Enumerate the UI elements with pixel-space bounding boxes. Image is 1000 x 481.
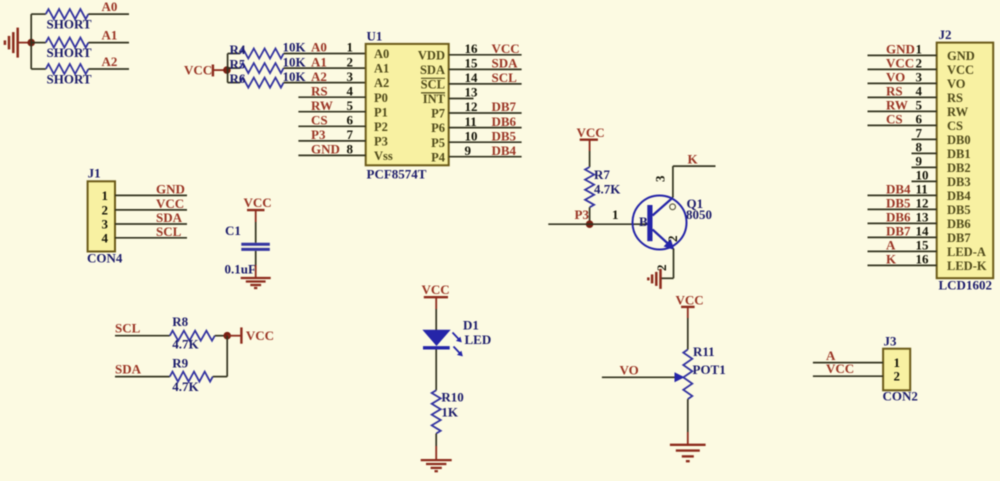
wire (J1 pin 3 SDA) xyxy=(115,223,187,225)
svg-text:GND: GND xyxy=(947,49,975,63)
svg-text:A0: A0 xyxy=(311,40,327,55)
svg-text:A: A xyxy=(886,238,896,253)
svg-text:SDA: SDA xyxy=(420,63,445,77)
svg-text:LED: LED xyxy=(465,332,492,347)
svg-text:VCC: VCC xyxy=(246,328,274,343)
wire (R8 to VCC junction) xyxy=(215,335,227,337)
wire (J1 pin 4 SCL) xyxy=(115,237,187,239)
wire (R7 to base node) xyxy=(589,207,591,224)
junction dot (VCC to R4-R6) xyxy=(223,66,231,74)
wire (VCC to R11) xyxy=(687,318,689,350)
ground (R10) xyxy=(421,460,452,471)
wire (J2 pin 6) xyxy=(868,124,937,126)
svg-text:10: 10 xyxy=(916,168,929,183)
svg-text:10: 10 xyxy=(465,128,478,143)
svg-text:LCD1602: LCD1602 xyxy=(939,278,992,293)
resistor R4 10K xyxy=(230,40,307,59)
pin name INT (U1 right) xyxy=(421,92,446,106)
wire (to short A0) xyxy=(31,13,46,15)
svg-text:DB3: DB3 xyxy=(947,175,971,189)
svg-text:A2: A2 xyxy=(374,76,389,90)
junction dot (P3/base) xyxy=(586,220,594,228)
svg-text:P0: P0 xyxy=(374,91,388,105)
svg-text:DB7: DB7 xyxy=(886,224,911,239)
ground (top-left jumpers) xyxy=(5,28,31,58)
svg-text:8050: 8050 xyxy=(686,207,712,222)
svg-text:SHORT: SHORT xyxy=(47,17,92,32)
pin name P6 (U1 right) xyxy=(431,121,445,135)
svg-text:LED-K: LED-K xyxy=(947,259,987,273)
capacitor C1 0.1uF xyxy=(225,223,270,277)
svg-text:4.7K: 4.7K xyxy=(172,337,199,352)
svg-text:VCC: VCC xyxy=(947,63,974,77)
wire (junction down to R9) xyxy=(226,336,228,377)
svg-text:15: 15 xyxy=(916,238,930,253)
svg-text:A2: A2 xyxy=(102,54,118,69)
svg-text:PCF8574T: PCF8574T xyxy=(367,167,427,182)
svg-text:DB1: DB1 xyxy=(947,147,971,161)
svg-text:VCC: VCC xyxy=(492,41,520,56)
svg-text:SDA: SDA xyxy=(492,56,519,71)
svg-text:10K: 10K xyxy=(283,40,307,55)
svg-text:DB5: DB5 xyxy=(947,203,971,217)
wire (to R5) xyxy=(228,67,241,69)
svg-text:R10: R10 xyxy=(441,390,463,405)
svg-text:K: K xyxy=(886,252,897,267)
svg-text:9: 9 xyxy=(916,154,923,169)
svg-text:P1: P1 xyxy=(374,105,388,119)
power VCC (R8/R9) xyxy=(227,327,274,343)
resistor R10 1K xyxy=(432,390,464,434)
pin name VDD (U1 right) xyxy=(418,48,445,62)
svg-text:A0: A0 xyxy=(374,47,389,61)
pin name SDA (U1 right) xyxy=(420,63,445,77)
wire (U1 pin 4 RS) xyxy=(298,96,365,98)
junction dot (R8/R9 to VCC) xyxy=(223,332,231,340)
svg-text:POT1: POT1 xyxy=(693,362,726,377)
svg-text:A1: A1 xyxy=(311,54,327,69)
svg-text:Vss: Vss xyxy=(374,149,393,163)
svg-text:R5: R5 xyxy=(230,57,246,72)
svg-text:DB6: DB6 xyxy=(947,217,971,231)
svg-text:4.7K: 4.7K xyxy=(594,182,621,197)
potentiometer R11 POT1 xyxy=(683,344,725,399)
wire (to R6) xyxy=(228,82,241,84)
wire (jumper bus vertical) xyxy=(30,14,32,69)
svg-text:SDA: SDA xyxy=(156,210,183,225)
svg-text:B: B xyxy=(639,214,648,229)
svg-text:7: 7 xyxy=(916,126,923,141)
svg-text:8: 8 xyxy=(916,140,923,155)
svg-text:P3: P3 xyxy=(311,127,326,142)
svg-text:1K: 1K xyxy=(441,405,459,420)
wire (R10 to ground) xyxy=(435,434,437,461)
wire (J2 pin 1) xyxy=(868,54,937,56)
svg-text:C1: C1 xyxy=(225,223,241,238)
pin name P4 (U1 right) xyxy=(431,150,446,164)
wiper arrow (R11) xyxy=(675,372,685,382)
svg-text:VCC: VCC xyxy=(156,196,184,211)
wire (U1 pin 11) xyxy=(449,127,522,129)
wire (R11 to ground) xyxy=(687,399,689,445)
svg-text:K: K xyxy=(688,152,699,167)
wire (VCC to R7) xyxy=(589,151,591,167)
wire (J2 pin 14) xyxy=(868,236,937,238)
ground (R11) xyxy=(670,445,706,461)
wire (J2 pin 7) xyxy=(912,138,937,140)
ground (C1) xyxy=(241,278,271,288)
wire (to R4) xyxy=(228,53,241,55)
svg-text:INT: INT xyxy=(423,92,446,106)
svg-text:P4: P4 xyxy=(431,150,446,164)
wire (J1 pin 1 GND) xyxy=(115,194,187,196)
connector J2 LCD1602 body xyxy=(937,27,994,293)
svg-text:VCC: VCC xyxy=(886,56,914,71)
svg-text:CS: CS xyxy=(311,113,328,128)
wire (SCL to R8) xyxy=(115,335,170,337)
wire (U1 pin 15) xyxy=(449,68,522,70)
svg-text:10K: 10K xyxy=(283,54,307,69)
svg-text:16: 16 xyxy=(465,41,479,56)
svg-text:VCC: VCC xyxy=(826,361,854,376)
wire (R9 to junction vertical) xyxy=(213,376,227,378)
svg-text:R8: R8 xyxy=(172,314,188,329)
pin name P7 (U1 right) xyxy=(431,107,445,121)
svg-text:12: 12 xyxy=(916,196,929,211)
svg-text:A1: A1 xyxy=(374,62,389,76)
wire (K net) xyxy=(673,165,716,167)
svg-text:SHORT: SHORT xyxy=(47,71,92,86)
svg-text:P2: P2 xyxy=(374,120,388,134)
svg-text:J3: J3 xyxy=(884,334,898,349)
resistor R7 4.7K xyxy=(585,167,621,207)
svg-text:A2: A2 xyxy=(311,69,327,84)
power VCC (R11) xyxy=(676,293,704,319)
svg-text:RS: RS xyxy=(886,84,903,99)
wire (SDA to R9) xyxy=(115,376,170,378)
svg-text:P3: P3 xyxy=(575,207,590,222)
svg-text:11: 11 xyxy=(465,114,477,129)
wire (J2 pin 15) xyxy=(868,250,937,252)
wire (J1 pin 2 VCC) xyxy=(115,209,187,211)
svg-text:SHORT: SHORT xyxy=(47,45,92,60)
svg-text:VO: VO xyxy=(886,70,905,85)
svg-text:SCL: SCL xyxy=(421,78,445,92)
svg-text:13: 13 xyxy=(916,210,930,225)
wire (A2 to U1 pin 3) xyxy=(284,82,366,84)
svg-text:J2: J2 xyxy=(939,27,952,42)
svg-text:6: 6 xyxy=(347,113,354,128)
svg-text:RW: RW xyxy=(886,98,908,113)
svg-text:SCL: SCL xyxy=(156,224,182,239)
svg-text:4.7K: 4.7K xyxy=(172,379,199,394)
svg-text:DB7: DB7 xyxy=(492,99,517,114)
svg-text:VO: VO xyxy=(620,363,639,378)
svg-text:VO: VO xyxy=(947,77,966,91)
svg-text:R11: R11 xyxy=(693,344,715,359)
svg-text:DB7: DB7 xyxy=(947,231,971,245)
svg-text:DB4: DB4 xyxy=(492,143,517,158)
resistor R9 4.7K xyxy=(170,356,213,395)
pin name SCL (U1 right) xyxy=(421,78,445,92)
power VCC (R4-R6 pullups) xyxy=(184,63,227,78)
svg-text:R6: R6 xyxy=(230,71,246,86)
svg-text:U1: U1 xyxy=(367,29,383,44)
wire (J3 pin 2 VCC) xyxy=(813,375,883,377)
wire (Q1 collector up) xyxy=(672,166,674,197)
svg-text:7: 7 xyxy=(347,127,354,142)
svg-text:VCC: VCC xyxy=(422,282,450,297)
svg-text:2: 2 xyxy=(665,236,680,243)
wire (Q1 emitter down) xyxy=(661,249,674,279)
resistor R6 10K xyxy=(230,69,307,88)
svg-text:DB0: DB0 xyxy=(947,133,971,147)
wire (U1 pin 9) xyxy=(449,156,522,158)
svg-text:P6: P6 xyxy=(431,121,445,135)
svg-text:1: 1 xyxy=(916,42,923,57)
transistor Q1 8050 xyxy=(633,175,713,271)
wire (U1 pin 10) xyxy=(449,141,522,143)
svg-text:VCC: VCC xyxy=(244,195,272,210)
svg-text:D1: D1 xyxy=(463,318,479,333)
svg-text:5: 5 xyxy=(916,98,923,113)
wire (P3 net to Q1 base) xyxy=(548,223,647,225)
wire (J2 pin 10) xyxy=(912,180,937,182)
svg-text:SCL: SCL xyxy=(115,321,141,336)
wire (VCC to D1 anode) xyxy=(435,309,437,331)
wire (U1 pin 14) xyxy=(449,83,522,85)
svg-text:DB4: DB4 xyxy=(886,182,911,197)
svg-text:6: 6 xyxy=(916,112,923,127)
svg-text:CON2: CON2 xyxy=(883,389,918,404)
svg-text:3: 3 xyxy=(653,175,668,182)
wire (J2 pin 16) xyxy=(868,264,937,266)
wire (U1 pin 7 P3) xyxy=(298,140,365,142)
wire (C1 bottom to ground) xyxy=(255,251,257,278)
svg-text:1: 1 xyxy=(612,207,619,222)
svg-text:GND: GND xyxy=(311,142,340,157)
wire (A1 to U1 pin 2) xyxy=(284,67,366,69)
wire (to short A1) xyxy=(31,42,46,44)
wire (A0 net) xyxy=(88,13,129,15)
power VCC (C1) xyxy=(244,195,272,222)
wire (VO to wiper) xyxy=(602,376,677,378)
svg-text:RW: RW xyxy=(311,98,333,113)
svg-text:VDD: VDD xyxy=(418,48,445,62)
svg-text:P5: P5 xyxy=(431,136,445,150)
svg-text:3: 3 xyxy=(916,70,923,85)
power VCC (D1) xyxy=(422,282,450,309)
wire (J2 pin 4) xyxy=(868,96,937,98)
svg-text:4: 4 xyxy=(347,83,354,98)
wire (A2 net) xyxy=(88,68,129,70)
wire (J2 pin 8) xyxy=(912,152,937,154)
wire (J2 pin 11) xyxy=(868,194,937,196)
wire (J2 pin 12) xyxy=(868,208,937,210)
svg-text:2: 2 xyxy=(916,56,923,71)
svg-text:15: 15 xyxy=(465,56,479,71)
wire (A0 to U1 pin 1) xyxy=(284,53,366,55)
resistor SHORT (A1 jumper) xyxy=(46,38,92,60)
svg-text:DB5: DB5 xyxy=(886,196,911,211)
wire (to short A2) xyxy=(31,68,46,70)
resistor SHORT (A0 jumper) xyxy=(46,9,92,31)
LED D1 xyxy=(422,318,491,357)
svg-text:P7: P7 xyxy=(431,107,445,121)
wire (U1 pin 12) xyxy=(449,112,522,114)
power VCC (R7) xyxy=(577,125,605,151)
svg-text:GND: GND xyxy=(156,182,185,197)
wire (VCC to C1 top) xyxy=(255,222,257,243)
svg-text:DB6: DB6 xyxy=(886,210,911,225)
svg-text:8: 8 xyxy=(347,142,354,157)
svg-text:1: 1 xyxy=(347,40,354,55)
svg-text:5: 5 xyxy=(347,98,354,113)
svg-text:SCL: SCL xyxy=(492,70,518,85)
wire (J2 pin 2) xyxy=(868,68,937,70)
wire (D1 cathode to R10) xyxy=(435,350,437,391)
op: IC U1 PCF8574T body xyxy=(366,29,449,182)
svg-text:12: 12 xyxy=(465,99,478,114)
resistor SHORT (A2 jumper) xyxy=(46,64,92,86)
wire (J2 pin 5) xyxy=(868,110,937,112)
svg-text:CS: CS xyxy=(886,112,903,127)
svg-text:R7: R7 xyxy=(594,167,610,182)
svg-text:A1: A1 xyxy=(102,28,118,43)
svg-text:GND: GND xyxy=(886,42,915,57)
svg-text:3: 3 xyxy=(102,217,109,232)
svg-text:SDA: SDA xyxy=(115,361,142,376)
svg-text:DB2: DB2 xyxy=(947,161,971,175)
resistor R8 4.7K xyxy=(170,314,215,352)
svg-text:A0: A0 xyxy=(102,0,118,14)
svg-text:16: 16 xyxy=(916,252,930,267)
svg-text:DB4: DB4 xyxy=(947,189,971,203)
svg-text:VCC: VCC xyxy=(184,63,212,78)
wire (R4-R6 common vertical) xyxy=(227,54,229,83)
svg-text:4: 4 xyxy=(102,230,109,245)
svg-text:0.1uF: 0.1uF xyxy=(225,262,256,277)
wire (U1 pin 6 CS) xyxy=(298,125,365,127)
svg-text:RS: RS xyxy=(947,91,963,105)
svg-text:DB6: DB6 xyxy=(492,114,517,129)
wire (J3 pin 1 A) xyxy=(813,362,883,364)
svg-text:9: 9 xyxy=(465,143,472,158)
svg-text:11: 11 xyxy=(916,182,928,197)
svg-text:14: 14 xyxy=(916,224,930,239)
junction dot (jumper common node) xyxy=(27,39,35,47)
resistor R5 10K xyxy=(230,54,307,73)
svg-text:1: 1 xyxy=(102,188,109,203)
svg-text:DB5: DB5 xyxy=(492,128,517,143)
connector J3 CON2 body xyxy=(883,334,918,404)
wire (U1 pin 16) xyxy=(449,54,522,56)
svg-text:RW: RW xyxy=(947,105,969,119)
svg-text:LED-A: LED-A xyxy=(947,245,986,259)
svg-text:RS: RS xyxy=(311,83,328,98)
connector J1 CON4 body xyxy=(87,166,123,266)
svg-text:2: 2 xyxy=(894,369,901,384)
svg-text:CS: CS xyxy=(947,119,963,133)
svg-text:R9: R9 xyxy=(172,356,188,371)
wire (J2 pin 9) xyxy=(912,166,937,168)
svg-text:P3: P3 xyxy=(374,135,388,149)
svg-text:13: 13 xyxy=(465,85,479,100)
ground (Q1 emitter) xyxy=(648,269,660,289)
svg-text:14: 14 xyxy=(465,70,479,85)
svg-text:VCC: VCC xyxy=(676,293,704,308)
pin name P5 (U1 right) xyxy=(431,136,445,150)
svg-text:3: 3 xyxy=(347,69,354,84)
wire (U1 pin 5 RW) xyxy=(298,111,365,113)
wire (A1 net) xyxy=(88,42,129,44)
wire (U1 pin 8 GND) xyxy=(298,154,365,156)
svg-text:10K: 10K xyxy=(283,69,307,84)
svg-text:2: 2 xyxy=(347,54,354,69)
svg-text:CON4: CON4 xyxy=(87,251,123,266)
wire (J2 pin 13) xyxy=(868,222,937,224)
svg-text:J1: J1 xyxy=(88,166,101,181)
svg-text:4: 4 xyxy=(916,84,923,99)
svg-text:2: 2 xyxy=(102,202,109,217)
wire (U1 pin 13) xyxy=(449,98,474,100)
wire (J2 pin 3) xyxy=(868,82,937,84)
svg-text:R4: R4 xyxy=(230,42,246,57)
svg-text:VCC: VCC xyxy=(577,125,605,140)
